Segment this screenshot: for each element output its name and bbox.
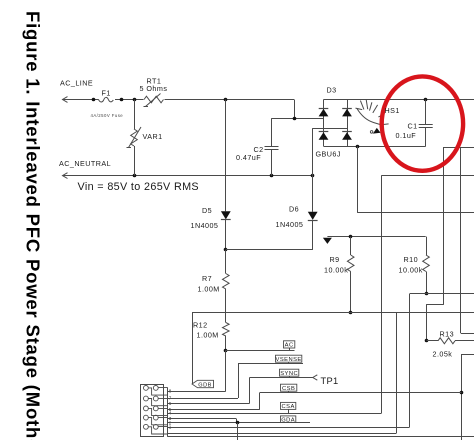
svg-text:HS1: HS1 [385,106,400,115]
svg-text:R7: R7 [202,274,212,283]
svg-text:R13: R13 [440,330,455,339]
svg-text:2.05k: 2.05k [433,349,453,358]
svg-text:1N4005: 1N4005 [276,220,304,229]
svg-text:R12: R12 [193,320,208,329]
svg-text:AC_LINE: AC_LINE [60,79,93,88]
svg-text:VAR1: VAR1 [143,132,163,141]
svg-text:SYNC: SYNC [280,371,298,377]
svg-text:TP1: TP1 [321,376,339,386]
svg-text:1N4005: 1N4005 [191,221,219,230]
svg-text:F1: F1 [102,89,111,98]
svg-text:5 Ohms: 5 Ohms [140,84,168,93]
svg-text:AC: AC [285,343,294,349]
svg-text:10.00k: 10.00k [399,265,423,274]
svg-text:0.47uF: 0.47uF [236,153,261,162]
svg-text:1.00M: 1.00M [197,330,219,339]
svg-text:CSA: CSA [282,404,295,410]
svg-text:4A/250V Fuse: 4A/250V Fuse [91,113,124,118]
svg-text:VSENSE: VSENSE [276,357,302,363]
svg-text:D6: D6 [289,204,299,213]
svg-text:D5: D5 [202,206,212,215]
svg-text:R9: R9 [330,255,340,264]
svg-text:CSB: CSB [282,386,295,392]
svg-text:D3: D3 [327,86,337,95]
svg-text:AC_NEUTRAL: AC_NEUTRAL [59,159,111,168]
svg-text:GBU6J: GBU6J [316,150,341,159]
svg-text:Figure 1. Interleaved PFC Powe: Figure 1. Interleaved PFC Power Stage (M… [23,11,44,440]
svg-text:GDB: GDB [198,383,211,389]
svg-text:0.1uF: 0.1uF [396,131,417,140]
svg-text:R10: R10 [404,255,419,264]
svg-text:Vin = 85V to 265V RMS: Vin = 85V to 265V RMS [78,181,200,193]
svg-text:10.00k: 10.00k [324,265,348,274]
svg-text:1.00M: 1.00M [198,284,220,293]
svg-text:C1: C1 [408,121,418,130]
